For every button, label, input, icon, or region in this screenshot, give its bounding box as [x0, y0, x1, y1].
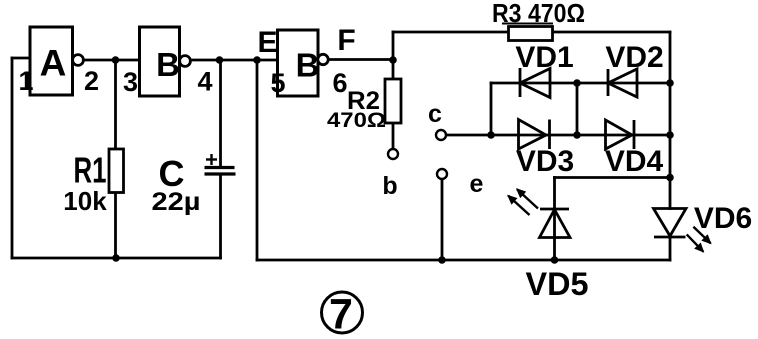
- photodiode VD5: [540, 209, 571, 238]
- wire right rail upper: [669, 32, 672, 209]
- wire bridge top row: [491, 82, 670, 85]
- wire bridge middle vertical: [576, 83, 579, 135]
- node VD5 bottom: [551, 256, 559, 264]
- svg-text:E: E: [257, 26, 277, 59]
- node R1 bottom: [112, 254, 120, 262]
- diode VD1: [520, 68, 550, 98]
- node C tap: [216, 56, 224, 64]
- wire terminal c to bridge: [446, 134, 491, 137]
- wire pin1 horizontal: [12, 57, 30, 60]
- svg-text:VD5: VD5: [526, 266, 589, 302]
- wire top run to R3: [393, 31, 509, 34]
- node E: [253, 56, 261, 64]
- svg-text:B: B: [156, 46, 180, 83]
- wire VD5 top horizontal: [555, 176, 671, 179]
- svg-text:3: 3: [123, 67, 138, 97]
- gate A: [30, 27, 83, 95]
- node bridge bottom right: [666, 131, 674, 139]
- svg-text:10k: 10k: [63, 186, 107, 216]
- gate B2: [278, 30, 329, 96]
- resistor R3: [492, 0, 585, 41]
- wire bridge left vertical: [490, 83, 493, 135]
- node bridge top mid: [573, 79, 581, 87]
- svg-text:VD4: VD4: [605, 145, 664, 178]
- wire left vertical: [11, 58, 14, 258]
- svg-text:A: A: [40, 43, 67, 84]
- gate B: [140, 27, 191, 96]
- node bridge bottom left: [487, 131, 495, 139]
- node R1 tap: [112, 56, 120, 64]
- node VD5 top right: [666, 174, 674, 182]
- node bridge bottom mid: [573, 131, 581, 139]
- wire R2 top lead: [392, 60, 395, 79]
- svg-text:F: F: [337, 24, 355, 57]
- diode VD2: [608, 69, 637, 97]
- svg-text:b: b: [382, 172, 397, 200]
- wire right rail lower: [669, 237, 672, 260]
- wire terminal e drop: [441, 179, 444, 260]
- svg-text:e: e: [470, 170, 484, 198]
- wire R2 bottom lead: [392, 123, 395, 149]
- node F: [389, 56, 397, 64]
- svg-text:5: 5: [270, 68, 285, 98]
- svg-text:c: c: [428, 100, 442, 128]
- wire R3 to right corner: [553, 31, 671, 34]
- diode VD4: [606, 120, 635, 149]
- wire bridge bottom row: [491, 134, 670, 137]
- diode VD3: [519, 120, 550, 150]
- wire node F up: [392, 32, 395, 60]
- VD6 light arrows: [687, 227, 711, 252]
- wire capacitor C bottom lead: [219, 174, 222, 258]
- node bridge top right: [666, 79, 674, 87]
- wire node E drop: [256, 60, 259, 260]
- figure number 7: [322, 291, 363, 339]
- resistor R1: [63, 149, 123, 216]
- terminal c: [428, 100, 446, 140]
- svg-text:7: 7: [329, 291, 353, 339]
- wire left bottom bus: [12, 257, 221, 260]
- VD5 light arrows: [508, 189, 538, 215]
- terminal e: [437, 169, 484, 198]
- svg-text:2: 2: [84, 66, 99, 96]
- wire R1 top lead: [114, 60, 117, 149]
- wire capacitor C top lead: [219, 60, 222, 168]
- svg-text:4: 4: [197, 67, 212, 97]
- wire VD5 vertical: [553, 178, 556, 261]
- capacitor C1: [205, 154, 236, 174]
- terminal b: [382, 149, 398, 200]
- svg-text:R1: R1: [74, 150, 107, 191]
- svg-text:B: B: [296, 47, 320, 84]
- svg-text:1: 1: [18, 66, 33, 96]
- resistor R2: [327, 79, 401, 132]
- svg-text:22µ: 22µ: [152, 188, 201, 216]
- wire gate B2 output to node F: [328, 58, 393, 61]
- svg-text:VD1: VD1: [515, 41, 573, 74]
- svg-text:VD6: VD6: [694, 202, 752, 235]
- svg-text:VD2: VD2: [605, 41, 663, 74]
- wire bottom bus right section: [257, 259, 670, 262]
- node e bottom: [438, 256, 446, 264]
- svg-text:470Ω: 470Ω: [327, 109, 386, 132]
- wire gate B output to gate B2: [191, 59, 278, 62]
- svg-text:VD3: VD3: [516, 145, 574, 178]
- LED VD6: [654, 209, 687, 238]
- wire R1 bottom lead: [114, 193, 117, 259]
- svg-text:6: 6: [332, 68, 347, 98]
- wire gate A output to gate B: [84, 59, 140, 62]
